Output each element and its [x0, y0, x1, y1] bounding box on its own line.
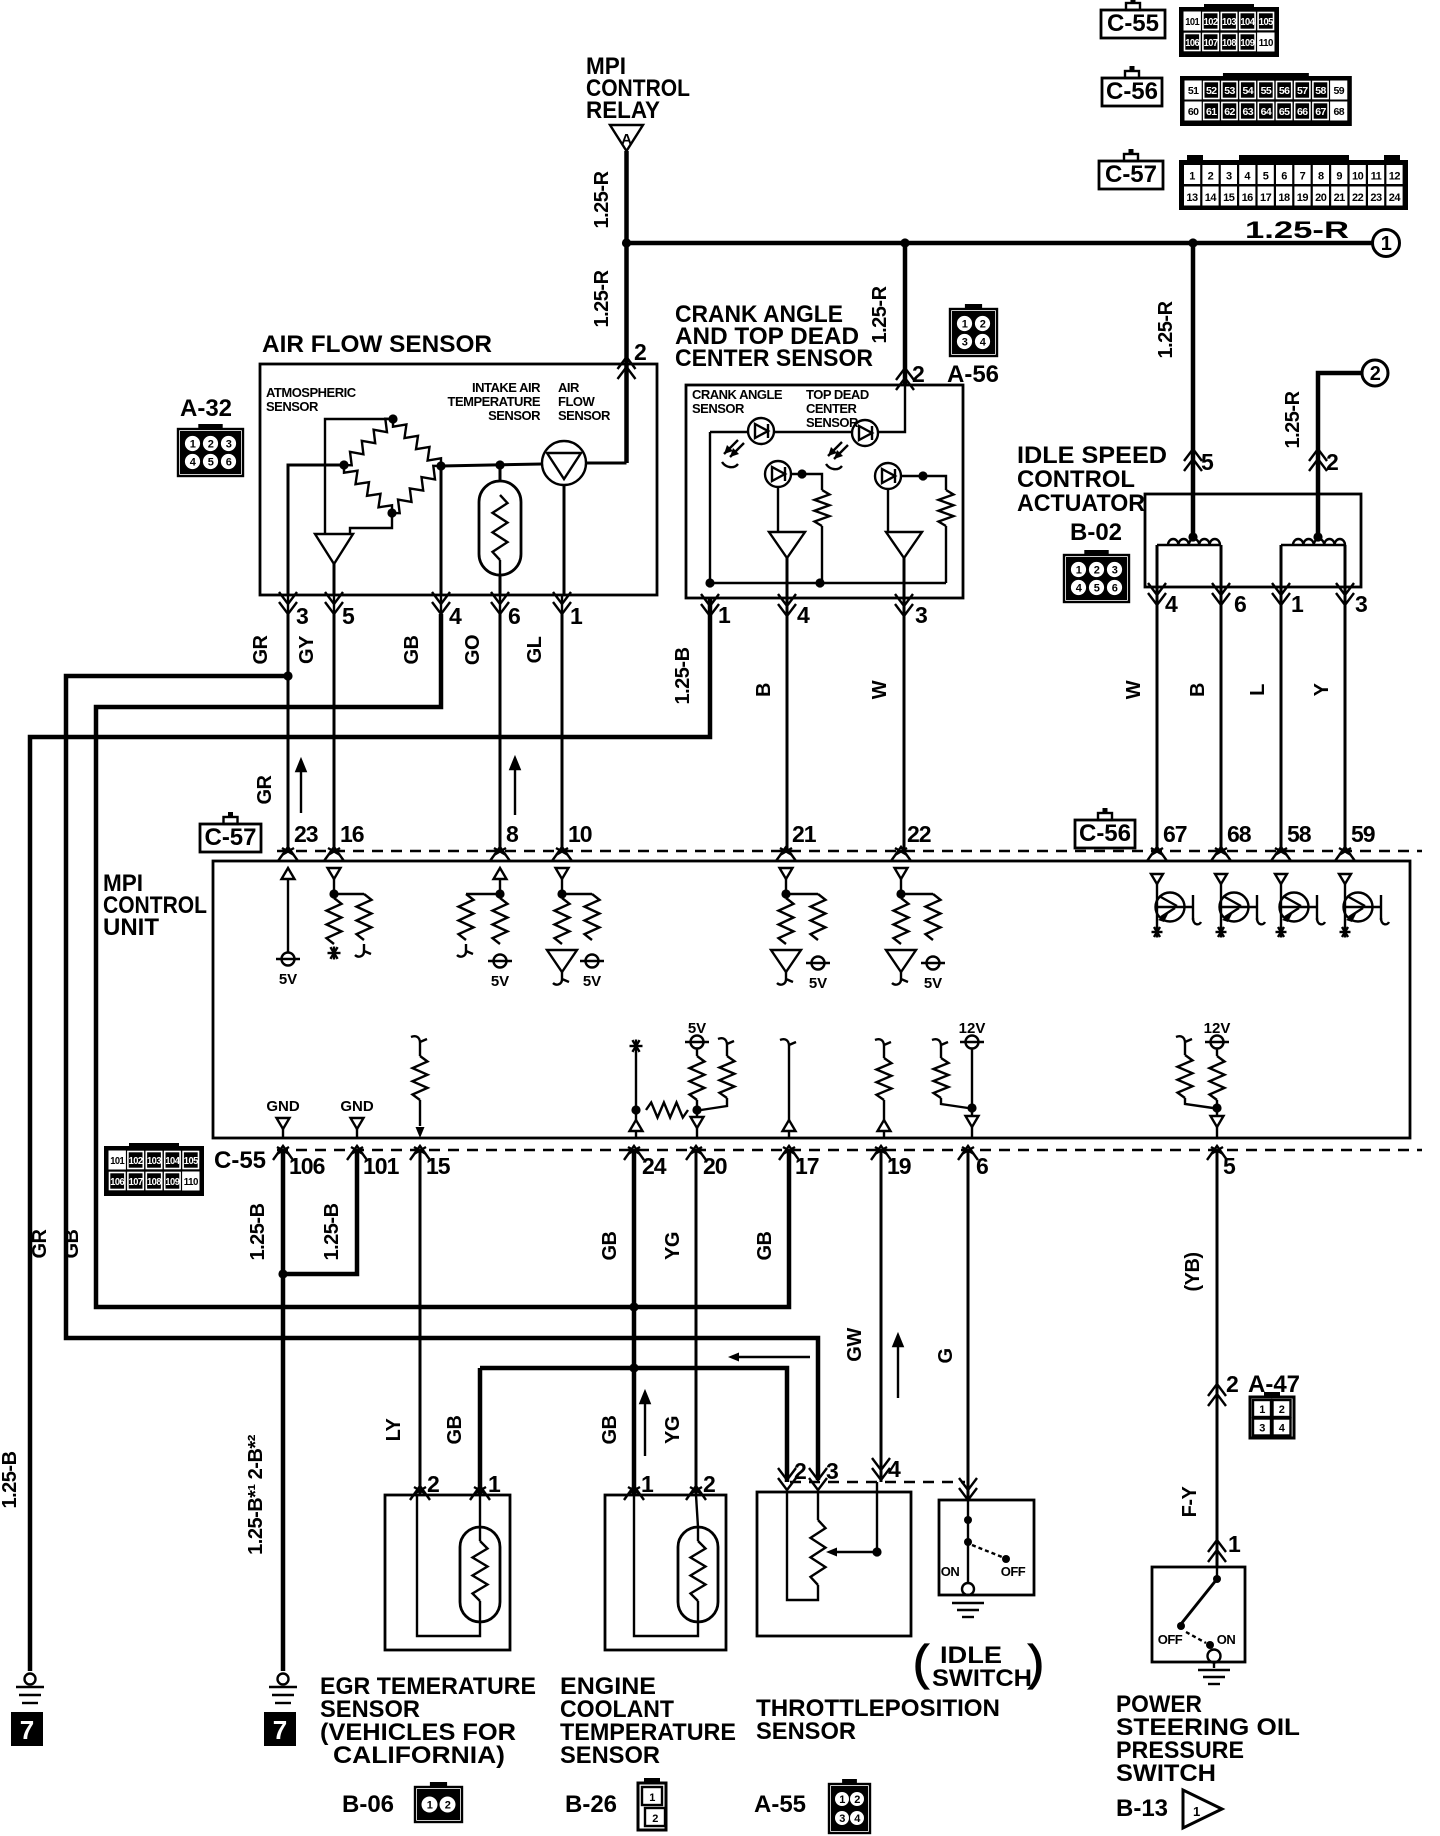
svg-text:3: 3	[1259, 1423, 1265, 1435]
connector C-57 label	[1099, 161, 1163, 189]
svg-text:108: 108	[1222, 37, 1237, 49]
svg-text:2: 2	[1226, 1371, 1238, 1397]
svg-text:1.25-B: 1.25-B	[247, 1203, 269, 1260]
ECU internal: pin 23 pullup to 5V	[282, 868, 295, 879]
node: crank drop	[900, 238, 909, 247]
tdc photo output network	[918, 471, 927, 480]
svg-text:2: 2	[445, 1800, 451, 1812]
connector C-55 label	[1101, 10, 1165, 38]
svg-text:1.25-R: 1.25-R	[869, 285, 891, 343]
svg-text:2: 2	[912, 361, 924, 387]
svg-text:B: B	[753, 683, 775, 697]
wire: pin 6 G to idle switch	[967, 1150, 970, 1500]
svg-text:2: 2	[427, 1471, 439, 1497]
svg-text:6: 6	[508, 603, 520, 629]
svg-text:GB: GB	[61, 1229, 83, 1258]
svg-text:YG: YG	[662, 1416, 684, 1444]
svg-text:3: 3	[1112, 565, 1118, 577]
ground: EGR/ECU 1.25-B with 7	[278, 1674, 289, 1685]
svg-text:15: 15	[426, 1153, 451, 1179]
ECU internal: pin 15 resistor	[411, 1036, 427, 1049]
svg-text:1: 1	[1291, 591, 1304, 617]
svg-text:W: W	[869, 680, 891, 699]
connector C-55 pin grid (bottom band)	[104, 1146, 204, 1196]
svg-text:20: 20	[1315, 192, 1327, 204]
EGR thermistor	[460, 1527, 500, 1622]
svg-text:C-57: C-57	[1105, 161, 1157, 188]
svg-text:B: B	[1187, 683, 1209, 697]
ECU internal: pin 16 divider	[328, 868, 341, 879]
svg-text:58: 58	[1315, 85, 1326, 97]
LED crank angle	[748, 418, 774, 444]
svg-text:1: 1	[488, 1471, 501, 1497]
ECU internal: pin 8 network	[494, 868, 507, 879]
svg-text:AIR: AIR	[558, 380, 580, 395]
svg-text:7: 7	[273, 1715, 287, 1745]
connector B-02	[1064, 555, 1129, 602]
svg-text:14: 14	[1205, 192, 1218, 204]
svg-text:2: 2	[1326, 449, 1338, 475]
svg-text:103: 103	[147, 1155, 162, 1167]
svg-text:CRANK ANGLE: CRANK ANGLE	[692, 387, 783, 402]
svg-text:2: 2	[1370, 363, 1381, 385]
connector A-47	[1250, 1397, 1294, 1438]
svg-text:107: 107	[1204, 37, 1219, 49]
svg-text:B-02: B-02	[1070, 519, 1122, 546]
light arrows crank angle	[724, 440, 744, 457]
svg-text:1: 1	[1189, 171, 1195, 183]
bottom row ECU pin markers	[273, 1146, 293, 1160]
svg-text:105: 105	[1259, 16, 1274, 28]
svg-text:F-Y: F-Y	[1179, 1485, 1201, 1517]
svg-text:101: 101	[1185, 16, 1200, 28]
svg-text:GB: GB	[599, 1415, 621, 1444]
svg-text:2: 2	[652, 1813, 658, 1825]
svg-text:SENSOR: SENSOR	[560, 1742, 660, 1769]
svg-text:5: 5	[1223, 1153, 1236, 1179]
svg-text:1: 1	[190, 439, 196, 451]
svg-text:2: 2	[208, 439, 214, 451]
ECU internal: pin 21 network	[780, 868, 793, 879]
svg-text:GR: GR	[250, 634, 272, 664]
wire: amp to pin 5	[333, 564, 336, 595]
svg-text:109: 109	[165, 1176, 180, 1188]
wire: pin 106 1.25-B down to ground	[281, 1150, 286, 1671]
svg-text:GB: GB	[599, 1231, 621, 1260]
svg-text:21: 21	[792, 821, 817, 847]
svg-text:GO: GO	[462, 635, 484, 665]
wire: crank pin4 B to pin21	[786, 598, 789, 851]
wire: pin 24 GB down to ECT pin 1	[632, 1150, 637, 1307]
svg-text:CONTROL: CONTROL	[1017, 466, 1135, 493]
svg-text:OFF: OFF	[1001, 1564, 1026, 1579]
svg-text:67: 67	[1163, 821, 1187, 847]
amp triangle (atmospheric sensor)	[315, 534, 353, 564]
svg-text:5V: 5V	[583, 973, 601, 990]
wire: pin 5 YB to power steering switch	[1216, 1150, 1219, 1567]
svg-text:8: 8	[506, 821, 519, 847]
svg-text:1.25-R: 1.25-R	[591, 269, 613, 327]
svg-text:1.25-B*¹ 2-B*²: 1.25-B*¹ 2-B*²	[245, 1434, 267, 1555]
svg-text:68: 68	[1227, 821, 1252, 847]
svg-text:21: 21	[1334, 192, 1346, 204]
wire: bridge bottom to amp input	[350, 513, 392, 534]
wire: crank pin3 W to pin22	[903, 598, 906, 851]
air flow sensor box	[260, 364, 657, 595]
TPS pins 2,3,4	[778, 1478, 796, 1490]
svg-text:61: 61	[1206, 106, 1217, 118]
svg-text:3: 3	[839, 1813, 845, 1825]
svg-text:1: 1	[427, 1800, 433, 1812]
svg-text:22: 22	[907, 821, 931, 847]
svg-text:RELAY: RELAY	[586, 97, 660, 124]
svg-text:55: 55	[1261, 85, 1272, 97]
amp triangle tdc	[886, 532, 922, 558]
svg-text:CALIFORNIA): CALIFORNIA)	[333, 1742, 505, 1769]
svg-text:5: 5	[208, 457, 214, 469]
svg-text:56: 56	[1279, 85, 1290, 97]
connector C-56 label (mid)	[1075, 820, 1135, 848]
svg-text:6: 6	[976, 1153, 988, 1179]
svg-text:24: 24	[1389, 192, 1402, 204]
svg-text:4: 4	[1165, 591, 1178, 617]
svg-text:5: 5	[1201, 449, 1214, 475]
svg-text:1: 1	[1381, 233, 1392, 255]
svg-text:1: 1	[649, 1792, 655, 1804]
svg-text:51: 51	[1188, 85, 1199, 97]
svg-text:101: 101	[363, 1153, 400, 1179]
svg-text:7: 7	[1300, 171, 1306, 183]
svg-text:SENSOR: SENSOR	[488, 408, 541, 423]
svg-text:106: 106	[289, 1153, 325, 1179]
svg-text:108: 108	[147, 1176, 162, 1188]
svg-text:B-26: B-26	[565, 1791, 617, 1818]
PS switch ground	[1213, 1662, 1215, 1668]
wire: bus to crank sensor pin 2	[903, 243, 908, 385]
svg-text:64: 64	[1261, 106, 1272, 118]
svg-text:2: 2	[1208, 171, 1214, 183]
ECT thermistor	[678, 1527, 718, 1622]
svg-text:1: 1	[962, 319, 968, 331]
svg-text:TEMPERATURE: TEMPERATURE	[448, 394, 541, 409]
wire: GO pin6 to pin8	[499, 614, 502, 851]
svg-text:59: 59	[1333, 85, 1344, 97]
wire: GR run pin3 to C-57 pin23	[287, 614, 290, 851]
svg-text:106: 106	[110, 1176, 125, 1188]
wire: GB thick run	[96, 614, 789, 1307]
svg-text:GL: GL	[524, 636, 546, 663]
crank photo output network	[797, 469, 806, 478]
svg-text:110: 110	[184, 1176, 199, 1188]
svg-text:60: 60	[1188, 106, 1199, 118]
crank bottom rail	[710, 582, 946, 584]
svg-text:SENSOR: SENSOR	[266, 399, 319, 414]
wire: pin 20 YG down to ECT pin 2	[695, 1150, 698, 1495]
svg-text:110: 110	[1259, 37, 1274, 49]
svg-text:3: 3	[1355, 591, 1367, 617]
svg-text:101: 101	[110, 1155, 125, 1167]
wire: pin 101 1.25-B loop	[283, 1150, 357, 1274]
svg-text:A: A	[621, 131, 632, 148]
svg-text:2: 2	[703, 1471, 715, 1497]
svg-text:3: 3	[826, 1458, 838, 1484]
svg-text:G: G	[935, 1348, 957, 1363]
TPS potentiometer	[817, 1492, 819, 1520]
ISC actuator box	[1145, 494, 1361, 587]
svg-text:1: 1	[641, 1471, 654, 1497]
svg-text:66: 66	[1297, 106, 1308, 118]
svg-text:2: 2	[794, 1458, 806, 1484]
svg-text:5: 5	[1263, 171, 1269, 183]
connector C-57 label (mid)	[200, 824, 261, 852]
idle switch ground	[952, 1602, 984, 1604]
svg-text:6: 6	[1112, 583, 1118, 595]
amp triangle crank	[769, 532, 805, 558]
svg-text:1: 1	[718, 602, 731, 628]
svg-text:(: (	[913, 1637, 929, 1690]
svg-text:Y: Y	[1311, 682, 1333, 696]
svg-text:23: 23	[1370, 192, 1382, 204]
svg-text:1: 1	[1259, 1404, 1265, 1416]
svg-text:4: 4	[797, 602, 810, 628]
svg-text:GND: GND	[340, 1098, 374, 1115]
svg-text:5V: 5V	[924, 975, 942, 992]
svg-text:19: 19	[887, 1153, 911, 1179]
svg-text:ATMOSPHERIC: ATMOSPHERIC	[266, 385, 357, 400]
svg-text:1.25-B: 1.25-B	[0, 1451, 21, 1508]
svg-text:12: 12	[1389, 171, 1401, 183]
svg-text:11: 11	[1371, 171, 1382, 183]
relay terminal A triangle	[610, 125, 643, 151]
svg-text:65: 65	[1279, 106, 1290, 118]
svg-text:54: 54	[1242, 85, 1253, 97]
svg-text:ON: ON	[1217, 1632, 1236, 1647]
svg-text:LY: LY	[383, 1417, 405, 1441]
svg-text:3: 3	[915, 602, 927, 628]
connector C-56 label	[1102, 78, 1162, 106]
svg-text:SWITCH: SWITCH	[932, 1665, 1032, 1692]
svg-text:B-13: B-13	[1116, 1795, 1168, 1822]
svg-text:63: 63	[1242, 106, 1253, 118]
PS switch box	[1152, 1567, 1245, 1662]
ISC coil 1	[1168, 539, 1220, 545]
svg-text:SENSOR: SENSOR	[806, 415, 859, 430]
svg-text:52: 52	[1206, 85, 1217, 97]
svg-text:GR: GR	[29, 1228, 51, 1258]
svg-text:17: 17	[1260, 192, 1272, 204]
svg-text:AIR FLOW SENSOR: AIR FLOW SENSOR	[262, 331, 492, 358]
svg-text:GW: GW	[844, 1328, 866, 1362]
svg-text:6: 6	[1281, 171, 1287, 183]
svg-text:53: 53	[1224, 85, 1235, 97]
TPS wiper	[872, 1547, 881, 1556]
PS switch internals	[1216, 1567, 1218, 1578]
svg-text:1.25-R: 1.25-R	[1245, 217, 1349, 244]
svg-text:1: 1	[570, 603, 583, 629]
svg-text:67: 67	[1315, 106, 1326, 118]
svg-text:9: 9	[1336, 171, 1342, 183]
svg-text:ON: ON	[941, 1564, 960, 1579]
svg-text:2: 2	[634, 339, 646, 365]
connector C-57 pin grid	[1179, 160, 1408, 210]
svg-text:102: 102	[1204, 16, 1219, 28]
svg-text:5V: 5V	[279, 971, 297, 988]
svg-text:OFF: OFF	[1158, 1632, 1183, 1647]
wire: pin 19 GW to TPS pin 4	[880, 1150, 883, 1482]
svg-text:2: 2	[980, 319, 986, 331]
svg-text:3: 3	[962, 337, 968, 349]
TPS box	[757, 1492, 911, 1636]
svg-text:3: 3	[296, 603, 308, 629]
svg-text:10: 10	[568, 821, 592, 847]
wire: bridge right to pin 4	[440, 466, 443, 595]
ECU internal: pins 24/20 network	[630, 1045, 643, 1047]
node: bus junction at relay wire	[622, 238, 631, 247]
svg-text:W: W	[1123, 680, 1145, 699]
svg-text:102: 102	[129, 1155, 144, 1167]
wire: node 2 to ISC pin 2	[1318, 373, 1362, 533]
connector C-55 pin grid	[1179, 7, 1279, 57]
svg-text:16: 16	[1242, 192, 1254, 204]
svg-text:58: 58	[1287, 821, 1312, 847]
circled node 1	[1373, 230, 1400, 257]
photo transistor crank angle	[765, 461, 791, 487]
svg-text:18: 18	[1278, 192, 1290, 204]
ECU internal: pin 17 stub	[780, 1039, 796, 1052]
svg-text:2: 2	[1094, 565, 1100, 577]
air flow sensor symbol	[542, 441, 586, 485]
svg-text:INTAKE AIR: INTAKE AIR	[472, 380, 541, 395]
LED top dead center	[852, 420, 878, 446]
pin 2 marker at AFS top	[618, 357, 636, 369]
MPI control unit dashed connector line bottom	[277, 1149, 1422, 1152]
EGR sensor box	[385, 1495, 510, 1650]
svg-text:1.25-R: 1.25-R	[591, 170, 613, 228]
svg-text:1.25-B: 1.25-B	[672, 647, 694, 704]
intake air temp thermistor	[479, 481, 521, 575]
svg-text:SENSOR: SENSOR	[558, 408, 611, 423]
ISC pins 4,6,1,3	[1148, 593, 1166, 605]
wire: crank pin1 1.25-B to left edge	[30, 598, 710, 1671]
svg-text:1.25-R: 1.25-R	[1155, 300, 1177, 358]
svg-text:57: 57	[1297, 85, 1308, 97]
svg-text:IDLE SPEED: IDLE SPEED	[1017, 442, 1167, 469]
svg-text:6: 6	[1234, 591, 1246, 617]
svg-text:109: 109	[1240, 37, 1255, 49]
svg-text:5V: 5V	[491, 973, 509, 990]
top row ECU pin markers	[278, 847, 298, 861]
svg-text:2: 2	[854, 1794, 860, 1806]
svg-text:SENSOR: SENSOR	[756, 1718, 856, 1745]
svg-text:23: 23	[294, 821, 318, 847]
bridge resistors (atmospheric sensor)	[344, 419, 393, 466]
AFS pins 3,5,4,6,1	[279, 602, 297, 614]
svg-text:68: 68	[1333, 106, 1344, 118]
crank pins 1,4,3	[701, 604, 719, 616]
wires ISC to C-56 pins	[1156, 587, 1159, 851]
svg-text:16: 16	[340, 821, 364, 847]
ECU internal: output transistors 67,68,58,59	[1151, 874, 1163, 884]
svg-text:TOP DEAD: TOP DEAD	[806, 387, 869, 402]
svg-text:104: 104	[165, 1155, 180, 1167]
ECU internal: pin 22 network	[895, 868, 908, 879]
left arrow above GB branch	[734, 1356, 810, 1358]
svg-text:GY: GY	[296, 635, 318, 664]
svg-text:106: 106	[1185, 37, 1200, 49]
svg-text:104: 104	[1240, 16, 1255, 28]
svg-text:1: 1	[839, 1794, 845, 1806]
MPI control unit dashed connector line top	[277, 850, 1422, 853]
svg-text:SENSOR: SENSOR	[692, 401, 745, 416]
svg-text:13: 13	[1186, 192, 1198, 204]
wire: bridge left to pin 3	[288, 465, 344, 595]
connector A-56	[950, 309, 997, 356]
wire: bridge right junction row	[441, 464, 542, 466]
svg-text:103: 103	[1222, 16, 1237, 28]
svg-text:59: 59	[1351, 821, 1375, 847]
svg-text:5: 5	[1094, 583, 1100, 595]
svg-text:FLOW: FLOW	[558, 394, 595, 409]
svg-text:10: 10	[1352, 171, 1364, 183]
svg-text:2: 2	[1279, 1404, 1285, 1416]
svg-text:ACTUATOR: ACTUATOR	[1017, 490, 1145, 517]
svg-text:1: 1	[1076, 565, 1082, 577]
engine coolant temp sensor box	[605, 1495, 726, 1650]
svg-text:1: 1	[1228, 1531, 1241, 1557]
svg-text:4: 4	[449, 603, 462, 629]
wire: GB branch to TPS pin 2	[480, 1368, 787, 1482]
svg-text:107: 107	[129, 1176, 144, 1188]
svg-text:1.25-R: 1.25-R	[1282, 390, 1304, 448]
svg-text:C-56: C-56	[1079, 820, 1131, 847]
svg-text:SWITCH: SWITCH	[1116, 1760, 1216, 1787]
svg-text:GB: GB	[444, 1415, 466, 1444]
svg-text:A-55: A-55	[754, 1791, 806, 1818]
svg-text:CENTER: CENTER	[806, 401, 858, 416]
crank sensor internal top rail	[878, 385, 905, 432]
wire: GR thick run to TPS pin3	[66, 676, 818, 1480]
svg-text:1: 1	[1193, 1804, 1200, 1819]
svg-text:6: 6	[226, 457, 232, 469]
svg-text:17: 17	[795, 1153, 819, 1179]
idle switch box	[939, 1500, 1034, 1595]
svg-text:15: 15	[1223, 192, 1235, 204]
MPI control unit box	[213, 861, 1410, 1138]
wire: GL pin1 to pin10	[561, 614, 564, 851]
svg-text:GB: GB	[401, 635, 423, 664]
connector C-56 pin grid	[1180, 76, 1352, 126]
light arrows top dead center	[828, 442, 848, 459]
svg-text:C-55: C-55	[214, 1147, 266, 1174]
wire: pin 15 LY to EGR pin 2	[419, 1150, 422, 1495]
crank sensor box	[686, 385, 963, 598]
svg-text:5: 5	[342, 603, 355, 629]
svg-text:22: 22	[1352, 192, 1364, 204]
wire: EGR pin 1 GB	[478, 1368, 483, 1495]
wire: bridge top to amp input	[325, 419, 393, 534]
idle switch internals	[967, 1500, 969, 1583]
svg-text:3: 3	[1226, 171, 1232, 183]
svg-text:): )	[1028, 1637, 1044, 1690]
svg-text:GB: GB	[754, 1231, 776, 1260]
svg-text:C-55: C-55	[1107, 10, 1159, 37]
svg-text:7: 7	[20, 1715, 34, 1745]
svg-text:20: 20	[703, 1153, 727, 1179]
svg-text:B-06: B-06	[342, 1791, 394, 1818]
wire: 1.25-R bus	[627, 241, 1373, 246]
circled node 2	[1362, 360, 1388, 386]
svg-text:24: 24	[642, 1153, 667, 1179]
